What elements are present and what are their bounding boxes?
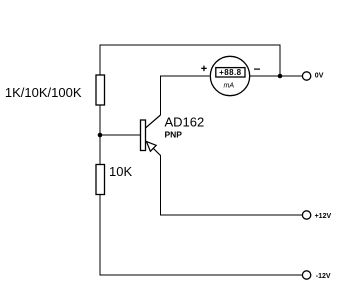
wire base from node to transistor	[100, 134, 141, 136]
svg-text:1K/10K/100K: 1K/10K/100K	[5, 85, 82, 100]
svg-text:+88.8: +88.8	[219, 68, 241, 77]
ammeter M1 display rectangle	[216, 68, 245, 77]
wire bottom from R2 to -12V terminal	[100, 195, 302, 275]
ammeter M1 plus polarity mark	[201, 66, 207, 72]
transistor Q1 base bar	[141, 120, 146, 151]
node junction dot at base	[98, 133, 103, 138]
terminal -12V circle	[302, 271, 310, 279]
svg-text:AD162: AD162	[165, 115, 205, 130]
node junction dot meter output	[278, 74, 283, 79]
svg-text:+12V: +12V	[315, 213, 332, 220]
svg-text:-12V: -12V	[316, 273, 331, 280]
wire meter - side to 0V terminal	[250, 75, 302, 77]
wire top from R1 top to meter branch	[100, 45, 280, 76]
ammeter M1 body circle	[210, 56, 249, 95]
terminal +12V circle	[302, 211, 310, 219]
terminal 0V circle	[302, 72, 310, 80]
svg-text:PNP: PNP	[165, 130, 183, 140]
svg-text:10K: 10K	[109, 164, 132, 179]
ammeter M1 minus polarity mark	[254, 69, 260, 70]
wire collector to meter + side	[146, 115, 161, 128]
svg-text:0V: 0V	[315, 72, 324, 79]
resistor R2 body	[96, 165, 105, 195]
wire left vertical R1 bottom to node and to R2 top	[99, 105, 101, 165]
wire emitter to +12V terminal	[146, 141, 160, 155]
transistor Q1 emitter arrow (PNP, pointing to base)	[147, 142, 157, 152]
svg-text:mA: mA	[224, 82, 235, 89]
resistor R1 body	[96, 75, 105, 105]
